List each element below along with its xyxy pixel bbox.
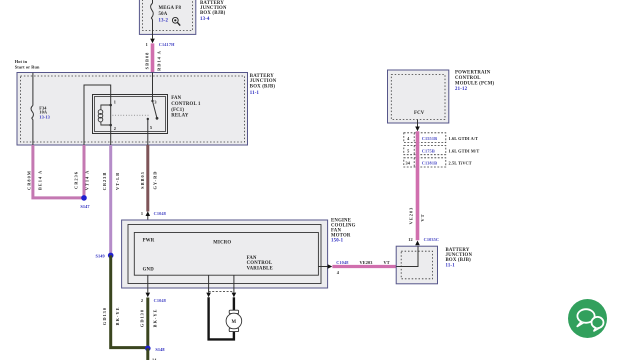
svg-text:2.5L TiVCT: 2.5L TiVCT <box>449 161 472 166</box>
svg-text:50A: 50A <box>159 12 168 17</box>
wire GND inside motor box <box>147 275 149 292</box>
svg-text:S149: S149 <box>95 254 104 259</box>
splice S149 <box>95 253 113 259</box>
label: BATTERY JUNCTION BOX (BJB) 11-1 <box>250 74 277 96</box>
battery junction box enclosure (top, BJB 13-4) <box>139 0 195 34</box>
svg-text:11-1: 11-1 <box>250 91 260 96</box>
svg-text:150-1: 150-1 <box>331 239 344 244</box>
svg-text:RD14 A: RD14 A <box>156 50 161 71</box>
svg-text:13-13: 13-13 <box>39 114 50 119</box>
svg-text:11-1: 11-1 <box>446 264 456 269</box>
svg-text:1: 1 <box>114 100 116 105</box>
ground wire continuing below S148 <box>146 348 149 360</box>
powertrain control module (PCM) box <box>388 70 449 123</box>
wire (coil pin 1 jumper over relay) <box>84 85 111 145</box>
svg-text:12: 12 <box>408 237 413 242</box>
svg-text:(FC1): (FC1) <box>171 108 184 113</box>
relay actuation dotted line <box>113 114 151 116</box>
wire from fuse box bottom to connector <box>152 20 154 39</box>
svg-text:C1551B: C1551B <box>422 136 437 141</box>
wire F34 to box bottom <box>32 120 34 145</box>
svg-text:CR236: CR236 <box>74 171 79 189</box>
svg-text:VE203: VE203 <box>360 260 373 265</box>
label: BATTERY JUNCTION BOX (BJB) 11-1 <box>446 248 473 268</box>
label: FAN CONTROL 1 (FC1) RELAY <box>171 96 201 118</box>
svg-text:C1381B: C1381B <box>422 161 437 166</box>
svg-text:CR80M: CR80M <box>27 170 32 190</box>
splice S147 <box>80 195 90 209</box>
connector C1048 pin 4 (arrow, motor output) <box>318 260 348 275</box>
micro output wires inside motor box <box>208 275 210 292</box>
splice S148 <box>145 346 165 352</box>
fuse F34 10A <box>31 106 50 120</box>
svg-text:BK-YE: BK-YE <box>153 309 158 328</box>
svg-text:5: 5 <box>150 125 152 130</box>
svg-text:GY-RD: GY-RD <box>153 171 158 190</box>
svg-text:S148: S148 <box>155 347 164 352</box>
PCM connector arrow <box>415 127 420 132</box>
engine cooling fan motor box <box>122 220 328 288</box>
battery junction box enclosure (main, BJB 11-1) <box>17 73 248 146</box>
svg-text:1: 1 <box>141 211 143 216</box>
connector C1048 pin 2 (arrow) <box>141 293 166 303</box>
motor loop wiring <box>209 297 234 339</box>
wire SBB08 RD (fuse F8 to relay pin 3) <box>144 43 161 72</box>
connector variant row C175B (1.6L GTDI M/T) <box>404 146 446 155</box>
svg-text:MODULE (PCM): MODULE (PCM) <box>455 81 495 86</box>
svg-text:FCV: FCV <box>414 111 425 116</box>
wire FCV out of PCM <box>417 120 419 127</box>
svg-text:C1048: C1048 <box>154 298 166 303</box>
svg-text:C1417H: C1417H <box>159 42 175 47</box>
svg-text:BOX (BJB): BOX (BJB) <box>446 258 472 263</box>
svg-text:VT-LB: VT-LB <box>115 172 120 190</box>
relay switch <box>147 100 159 120</box>
svg-text:MEGA F8: MEGA F8 <box>159 6 182 11</box>
relay pin numbers <box>114 100 157 131</box>
svg-text:13-4: 13-4 <box>200 17 210 22</box>
fuse MEGA F8 50A <box>151 3 182 23</box>
wire splice S149 to splice S148 (ground) <box>102 255 148 347</box>
svg-text:SBB05: SBB05 <box>140 171 145 189</box>
wire relay pin 5 to C1048 pin 1 <box>140 145 158 212</box>
svg-text:VARIABLE: VARIABLE <box>247 266 273 271</box>
motor M1 <box>226 310 242 331</box>
chat button <box>568 299 607 338</box>
wire inside lower BJB <box>396 246 418 266</box>
svg-text:BOX (BJB): BOX (BJB) <box>250 84 276 89</box>
svg-text:FAN: FAN <box>171 96 181 101</box>
magnifier icon <box>172 17 180 25</box>
svg-text:VT: VT <box>420 213 425 221</box>
svg-text:C1035C: C1035C <box>424 237 440 242</box>
svg-text:RELAY: RELAY <box>171 113 189 118</box>
svg-text:BOX (BJB): BOX (BJB) <box>200 11 226 16</box>
svg-text:C1048: C1048 <box>336 260 348 265</box>
wire motor GND to splice S148 <box>139 298 157 349</box>
wire (feed into fuse F8) <box>152 0 154 3</box>
relay pin 5 wire to box bottom <box>147 119 149 145</box>
svg-text:VE203: VE203 <box>408 207 413 225</box>
motor box internal labels <box>143 238 273 272</box>
connector variant row C1381B (2.5L TiVCT) <box>404 158 446 167</box>
svg-text:5: 5 <box>407 148 409 153</box>
svg-text:BE14 A: BE14 A <box>38 170 43 190</box>
wire F34 output to splice S147 <box>27 145 83 198</box>
label: BATTERY JUNCTION BOX (BJB) 13-4 <box>200 1 227 22</box>
svg-text:C175B: C175B <box>422 148 435 153</box>
battery junction box enclosure (lower right, BJB 11-1) <box>396 246 437 284</box>
label: ENGINE COOLING FAN MOTOR 150-1 <box>331 218 356 243</box>
svg-text:2: 2 <box>141 298 143 303</box>
connector C1417H pin 1 (arrow) <box>146 39 175 48</box>
svg-text:S147: S147 <box>80 204 90 209</box>
label: Hot in Start or Run <box>15 59 40 70</box>
label: POWERTRAIN CONTROL MODULE (PCM) 21-12 <box>455 70 495 92</box>
relay pin 2 wire to box bottom <box>110 134 112 146</box>
svg-text:VT14 A: VT14 A <box>85 170 90 191</box>
svg-text:21-12: 21-12 <box>455 87 468 92</box>
svg-text:1.6L GTDI M/T: 1.6L GTDI M/T <box>449 148 480 153</box>
dashed link between motor leads <box>209 291 234 293</box>
svg-text:GD130: GD130 <box>139 309 144 327</box>
svg-text:POWERTRAIN: POWERTRAIN <box>455 70 491 75</box>
connector C1048 pin 1 (arrow) <box>141 211 166 216</box>
svg-text:C1048: C1048 <box>154 211 166 216</box>
svg-text:VT: VT <box>384 260 390 265</box>
connector C1035C pin 12 (arrow) <box>408 237 439 245</box>
wire into motor box (PWR) <box>147 216 149 233</box>
svg-text:Start or Run: Start or Run <box>15 65 40 70</box>
svg-text:PWR: PWR <box>143 238 155 243</box>
svg-text:MICRO: MICRO <box>213 240 231 245</box>
svg-text:1: 1 <box>146 42 148 47</box>
svg-text:34: 34 <box>406 161 411 166</box>
svg-text:Hot in: Hot in <box>15 59 28 64</box>
svg-text:M: M <box>232 320 237 325</box>
fuse F34 10A feed wire <box>32 73 34 106</box>
connector variant row C1551B (1.6L GTDI A/T) <box>404 133 446 143</box>
svg-text:CONTROL 1: CONTROL 1 <box>171 102 201 107</box>
wire VE203 VT (motor to BJB) <box>332 260 396 266</box>
wire VE203 VT (PCM to BJB) <box>408 131 425 240</box>
svg-text:13-2: 13-2 <box>159 19 169 24</box>
svg-text:BK-YE: BK-YE <box>115 307 120 326</box>
variant row labels <box>406 136 480 166</box>
relay coil <box>98 95 112 134</box>
svg-text:CR23B: CR23B <box>102 172 107 191</box>
svg-text:GND: GND <box>143 267 155 272</box>
svg-text:3: 3 <box>154 100 156 105</box>
arrows below motor box <box>206 293 211 298</box>
wire relay coil pin 1 to splice S147 <box>74 145 90 197</box>
wire relay coil pin 2 to splice S149 <box>102 145 120 255</box>
svg-text:SBB08: SBB08 <box>144 52 149 70</box>
svg-text:1.6L GTDI A/T: 1.6L GTDI A/T <box>449 136 479 141</box>
svg-text:CONTROL: CONTROL <box>455 76 481 81</box>
svg-text:2: 2 <box>114 126 116 131</box>
svg-text:GD130: GD130 <box>102 307 107 325</box>
relay pin 3 wire (from C1417H) <box>152 73 154 102</box>
relay FC1 box <box>93 95 168 134</box>
